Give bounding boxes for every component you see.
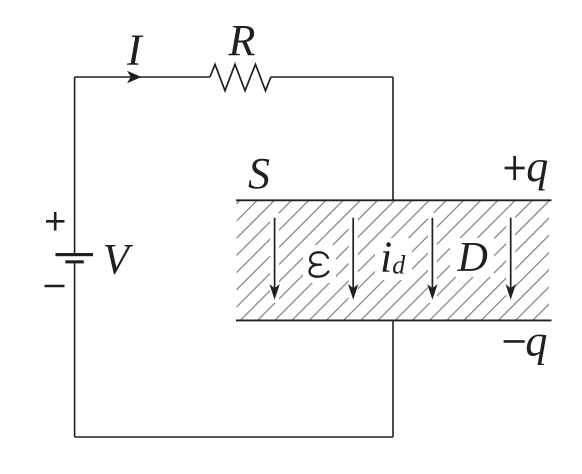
svg-text:q: q (525, 317, 547, 366)
wire top (right segment) (271, 76, 393, 78)
capacitor top plate (236, 199, 552, 201)
white patch under D label (450, 238, 494, 277)
current arrowhead I (127, 71, 142, 83)
svg-text:q: q (526, 142, 548, 191)
wire left upper (to battery) (74, 77, 76, 253)
svg-text:D: D (457, 235, 488, 281)
capacitor bottom plate (236, 319, 552, 321)
white halo under field arrows (275, 213, 511, 303)
battery V short plate (65, 260, 84, 263)
white patch under epsilon label (303, 245, 336, 283)
field arrow 3 (427, 218, 437, 300)
resistor R (210, 64, 271, 90)
wire right upper (to top plate) (392, 77, 394, 200)
wire top (left segment with current arrow) (75, 76, 210, 78)
label -q minus sign (504, 340, 525, 343)
field arrow 2 (348, 218, 358, 300)
dielectric hatched region (103, 201, 582, 320)
wire bottom (75, 436, 393, 438)
wire left lower (battery to bottom) (74, 263, 76, 437)
wire right lower (bottom plate to bottom wire) (392, 320, 394, 437)
white patch under i_d label (375, 238, 412, 280)
label +q plus sign (505, 156, 525, 180)
svg-text:R: R (228, 16, 256, 65)
battery V long plate (56, 253, 94, 256)
svg-text:I: I (126, 26, 144, 75)
label epsilon (E field) (310, 252, 329, 276)
battery minus sign (45, 285, 65, 287)
svg-text:S: S (248, 149, 270, 198)
field arrow 1 (269, 218, 279, 300)
field arrow 4 (506, 218, 516, 300)
battery plus sign (46, 212, 65, 231)
